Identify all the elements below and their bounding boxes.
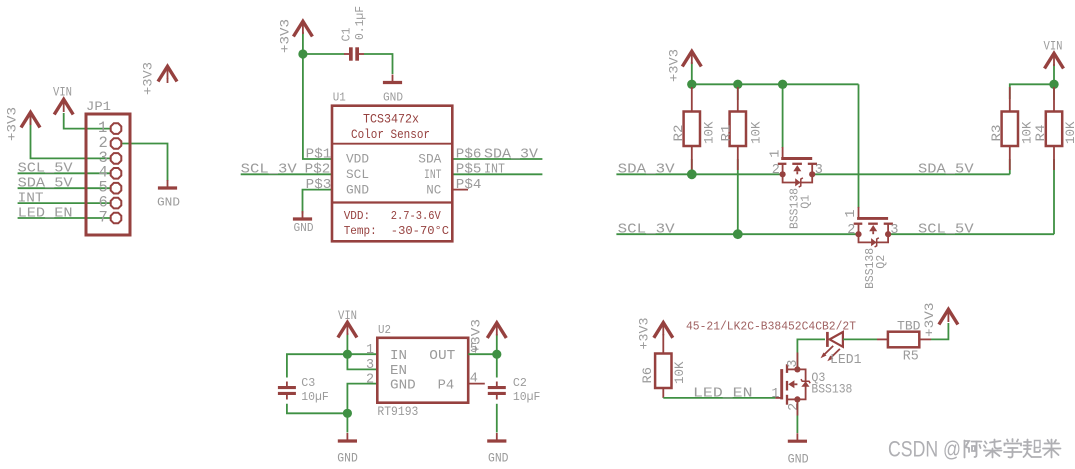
svg-text:SDA_5V: SDA_5V bbox=[18, 176, 74, 192]
svg-text:LED_EN: LED_EN bbox=[18, 205, 73, 221]
wire SDA_3V bbox=[616, 173, 782, 175]
svg-text:3: 3 bbox=[815, 163, 823, 178]
wire C3 bottom to gnd node bbox=[287, 404, 348, 414]
svg-text:GND: GND bbox=[390, 378, 416, 393]
node SCL_3V/R1 dot bbox=[733, 229, 743, 239]
resistor R6 bbox=[662, 386, 664, 398]
svg-text:GND: GND bbox=[337, 452, 358, 466]
wire Q3 drain up to LED bbox=[797, 339, 825, 369]
svg-text:+3V3: +3V3 bbox=[668, 49, 682, 82]
supply VIN (pin1) bbox=[54, 99, 73, 114]
svg-text:R6: R6 bbox=[641, 367, 655, 384]
svg-text:CSDN @: CSDN @ bbox=[888, 437, 961, 462]
wire +3V3 stem bbox=[496, 334, 498, 354]
svg-text:Q2: Q2 bbox=[874, 255, 888, 269]
supply VIN bbox=[1045, 53, 1064, 68]
resistor R5 body bbox=[888, 332, 919, 348]
svg-text:SDA_5V: SDA_5V bbox=[918, 162, 974, 178]
pin lead Q3 drain bbox=[796, 353, 798, 370]
resistor R5 leads bbox=[877, 338, 888, 340]
wire LED_EN bbox=[663, 397, 775, 399]
supply +3V3 (pin3) bbox=[21, 112, 40, 127]
svg-text:10K: 10K bbox=[673, 361, 687, 384]
svg-text:Q1: Q1 bbox=[799, 195, 813, 209]
svg-text:P$5: P$5 bbox=[456, 162, 482, 178]
wire pin1 to VIN bbox=[64, 113, 116, 129]
svg-text:VIN: VIN bbox=[1044, 40, 1063, 54]
svg-text:10K: 10K bbox=[703, 121, 717, 144]
svg-text:C3: C3 bbox=[301, 377, 315, 390]
svg-text:R3: R3 bbox=[990, 125, 1004, 142]
svg-text:LED_EN: LED_EN bbox=[693, 385, 753, 401]
svg-text:P$2: P$2 bbox=[305, 162, 331, 178]
svg-text:2: 2 bbox=[772, 163, 780, 178]
svg-text:R5: R5 bbox=[903, 350, 919, 365]
svg-text:SDA: SDA bbox=[418, 153, 441, 167]
wire R2 bottom bbox=[691, 159, 693, 174]
pin stub P$4 (nc) bbox=[452, 189, 468, 191]
svg-text:+3V3: +3V3 bbox=[923, 303, 937, 338]
svg-text:10K: 10K bbox=[1064, 121, 1075, 144]
resistor R3 bbox=[1009, 87, 1011, 112]
pad 1 bbox=[111, 123, 122, 134]
diode LED1 bbox=[821, 332, 843, 361]
svg-text:SCL_5V: SCL_5V bbox=[918, 222, 974, 238]
svg-text:SCL_5V: SCL_5V bbox=[18, 161, 74, 177]
svg-text:2.7-3.6V: 2.7-3.6V bbox=[391, 209, 442, 223]
svg-text:SCL_3V: SCL_3V bbox=[618, 222, 676, 238]
svg-text:JP1: JP1 bbox=[86, 99, 111, 114]
svg-text:2: 2 bbox=[787, 403, 802, 411]
supply VIN bbox=[338, 322, 357, 337]
svg-text:1: 1 bbox=[844, 209, 859, 217]
svg-text:GND: GND bbox=[383, 92, 403, 105]
svg-text:Temp:: Temp: bbox=[344, 224, 377, 238]
svg-text:R2: R2 bbox=[672, 125, 686, 142]
supply +3V3 bbox=[293, 21, 312, 36]
pin stub P4 (nc) bbox=[468, 383, 485, 385]
pin labels P$1-P$3 bbox=[241, 146, 539, 193]
svg-text:10µF: 10µF bbox=[301, 391, 329, 404]
wire down to C2 bbox=[496, 354, 498, 377]
hanzi C bbox=[1004, 439, 1022, 458]
svg-text:3: 3 bbox=[786, 359, 801, 367]
wire +3V3 bus bbox=[692, 62, 859, 84]
wire +3V3 junction to C1 and down to P$1 bbox=[303, 32, 344, 54]
pin lead Q3 source bbox=[796, 399, 798, 415]
IC U2 box bbox=[377, 338, 468, 403]
svg-text:+3V3: +3V3 bbox=[6, 107, 20, 141]
wire SDA_5V bbox=[813, 173, 1010, 175]
svg-text:LED1: LED1 bbox=[830, 353, 862, 368]
svg-text:10K: 10K bbox=[750, 121, 764, 144]
svg-text:TBD: TBD bbox=[897, 320, 921, 334]
wire R1 top bbox=[737, 84, 739, 100]
svg-text:VIN: VIN bbox=[338, 309, 357, 323]
wire R5 to +3V3 bbox=[931, 323, 948, 339]
supply +3V3 (floating flag) bbox=[158, 66, 177, 81]
hanzi D bbox=[1024, 440, 1042, 458]
svg-text:U2: U2 bbox=[378, 324, 391, 337]
svg-text:INT: INT bbox=[18, 190, 44, 206]
svg-text:+3V3: +3V3 bbox=[470, 319, 484, 354]
wire Q1 gate drop bbox=[782, 84, 784, 148]
pin numbers bbox=[366, 342, 478, 387]
svg-text:SDA_3V: SDA_3V bbox=[484, 146, 539, 162]
svg-text:3: 3 bbox=[366, 358, 374, 373]
wire OUT to +3V3 junction bbox=[468, 353, 497, 355]
svg-text:SDA_3V: SDA_3V bbox=[618, 162, 676, 178]
svg-text:P$4: P$4 bbox=[456, 177, 482, 193]
wire R1 bottom down to SCL_3V bbox=[737, 159, 739, 234]
pin numbers 1-7 bbox=[98, 119, 108, 226]
hanzi A bbox=[965, 441, 982, 458]
svg-text:10µF: 10µF bbox=[513, 391, 541, 404]
op-amp? no: IC U1 box bbox=[332, 106, 452, 242]
wire SCL_5V bbox=[888, 233, 1054, 235]
svg-text:GND: GND bbox=[488, 452, 509, 466]
node gnd junction dot bbox=[343, 409, 352, 418]
wire +3V3 stem to R6 bbox=[662, 334, 664, 354]
svg-text:RT9193: RT9193 bbox=[377, 405, 418, 419]
wire EN tie bbox=[347, 354, 377, 369]
capacitor C1 bbox=[344, 47, 364, 60]
svg-text:GND: GND bbox=[294, 222, 314, 235]
svg-text:45-21/LK2C-B38452C4CB2/2T: 45-21/LK2C-B38452C4CB2/2T bbox=[686, 321, 856, 334]
wire pin2 to GND bbox=[116, 144, 168, 182]
svg-text:1: 1 bbox=[768, 150, 783, 158]
wire VIN bus bbox=[1010, 84, 1054, 100]
transistor Q1 bbox=[778, 147, 817, 187]
transistor Q3 (vertical) bbox=[775, 364, 810, 404]
svg-text:R4: R4 bbox=[1034, 125, 1048, 142]
wire VIN down to junction bbox=[346, 333, 348, 354]
capacitor C3 bbox=[278, 382, 296, 400]
ground (C2) bbox=[487, 433, 506, 441]
svg-text:P$1: P$1 bbox=[306, 146, 332, 162]
transistor Q2 bbox=[854, 207, 893, 247]
pad 7 bbox=[111, 213, 122, 224]
node SDA_3V/R2 dot bbox=[687, 169, 697, 179]
svg-text:+3V3: +3V3 bbox=[279, 19, 293, 53]
supply +3V3 (R6) bbox=[654, 323, 673, 338]
node VIN dot bbox=[1049, 80, 1058, 89]
svg-text:1: 1 bbox=[366, 343, 374, 358]
svg-text:VDD: VDD bbox=[346, 153, 369, 167]
svg-text:NC: NC bbox=[426, 183, 441, 197]
wire SCL_5V pin4 bbox=[18, 172, 116, 174]
svg-text:P$6: P$6 bbox=[456, 146, 482, 162]
wire R4 bottom to SCL_5V bbox=[1053, 159, 1055, 234]
svg-text:OUT: OUT bbox=[429, 349, 455, 364]
pin names left bbox=[346, 153, 442, 198]
svg-text:C2: C2 bbox=[513, 377, 527, 390]
svg-text:+3V3: +3V3 bbox=[142, 62, 156, 95]
svg-text:SCL: SCL bbox=[346, 168, 369, 182]
svg-text:IN: IN bbox=[390, 349, 407, 364]
wire pin3 to +3V3 bbox=[31, 114, 117, 159]
wire SCL_3V P$2 bbox=[241, 173, 332, 175]
supply +3V3 (R5) bbox=[939, 309, 958, 324]
svg-text:2: 2 bbox=[847, 223, 855, 238]
wire junction to IN pin bbox=[347, 353, 377, 355]
resistor R2 bbox=[691, 87, 693, 112]
node OUT junction dot bbox=[492, 350, 501, 359]
svg-text:2: 2 bbox=[366, 372, 374, 387]
wire LED to R5 bbox=[843, 338, 877, 340]
connector JP1 box bbox=[86, 114, 130, 235]
wire C1 right to GND bbox=[364, 54, 393, 74]
wire VIN arrow stem bbox=[1053, 64, 1055, 84]
svg-text:TCS3472x: TCS3472x bbox=[363, 113, 419, 127]
wire P$3 to GND bbox=[303, 190, 333, 214]
svg-text:GND: GND bbox=[788, 453, 809, 467]
svg-text:VDD:: VDD: bbox=[344, 209, 371, 223]
pad 2 bbox=[111, 138, 122, 149]
svg-text:-30-70°C: -30-70°C bbox=[391, 224, 449, 238]
svg-text:R1: R1 bbox=[720, 125, 734, 142]
ground (C1) bbox=[383, 75, 402, 83]
capacitor C2 bbox=[488, 382, 506, 400]
wire C2 bottom to gnd bbox=[496, 404, 498, 433]
svg-text:BSS138: BSS138 bbox=[811, 383, 852, 397]
wire P$5 INT bbox=[452, 173, 542, 175]
ground (Q3) bbox=[788, 433, 807, 441]
pad 4 bbox=[111, 168, 122, 179]
wire Q2 gate drop bbox=[858, 84, 860, 208]
ground (pin2) bbox=[158, 180, 177, 188]
wire P$6 SDA_3V bbox=[452, 158, 542, 160]
wire P$1 drop bbox=[303, 54, 332, 159]
node bus dots bbox=[687, 80, 696, 89]
pin names bbox=[390, 349, 455, 393]
svg-text:3: 3 bbox=[890, 223, 898, 238]
wire GND pin down bbox=[347, 384, 377, 433]
wire LED_EN pin7 bbox=[18, 217, 116, 219]
svg-text:Color Sensor: Color Sensor bbox=[351, 128, 430, 142]
wire SCL_3V bbox=[616, 233, 858, 235]
svg-text:EN: EN bbox=[390, 364, 407, 379]
wire SDA_5V pin5 bbox=[18, 187, 116, 189]
pad 6 bbox=[111, 198, 122, 209]
svg-text:U1: U1 bbox=[333, 92, 346, 105]
svg-text:10K: 10K bbox=[1020, 121, 1034, 144]
svg-text:INT: INT bbox=[484, 162, 505, 178]
svg-text:+3V3: +3V3 bbox=[638, 318, 652, 350]
pad 5 bbox=[111, 183, 122, 194]
svg-text:INT: INT bbox=[424, 168, 442, 182]
svg-text:P$3: P$3 bbox=[306, 177, 332, 193]
wire junction left to C3 bbox=[287, 354, 348, 377]
svg-text:0.1µF: 0.1µF bbox=[354, 6, 367, 40]
wire INT pin6 bbox=[18, 202, 116, 204]
supply +3V3 bbox=[682, 51, 701, 66]
svg-text:C1: C1 bbox=[341, 27, 354, 41]
params text bbox=[344, 209, 449, 238]
resistor R4 bbox=[1053, 87, 1055, 112]
supply +3V3 (U2 out) bbox=[487, 323, 506, 338]
svg-text:7: 7 bbox=[99, 208, 108, 226]
svg-text:P4: P4 bbox=[438, 378, 455, 393]
svg-text:SCL_3V: SCL_3V bbox=[241, 162, 298, 178]
svg-text:GND: GND bbox=[157, 196, 180, 210]
svg-text:VIN: VIN bbox=[53, 86, 72, 100]
svg-text:1: 1 bbox=[771, 387, 779, 402]
pad 3 bbox=[111, 153, 122, 164]
wire R3 bottom to SDA_5V bbox=[1009, 159, 1011, 174]
ground (P$3) bbox=[293, 211, 312, 219]
resistor R1 bbox=[737, 87, 739, 112]
node junction dot bbox=[298, 49, 307, 58]
ground (U2) bbox=[338, 433, 357, 441]
node VIN junction dot bbox=[343, 350, 352, 359]
hanzi E bbox=[1043, 440, 1061, 458]
hanzi B bbox=[984, 440, 1002, 458]
svg-text:GND: GND bbox=[346, 183, 369, 197]
wire Q3 source to gnd bbox=[796, 399, 798, 433]
